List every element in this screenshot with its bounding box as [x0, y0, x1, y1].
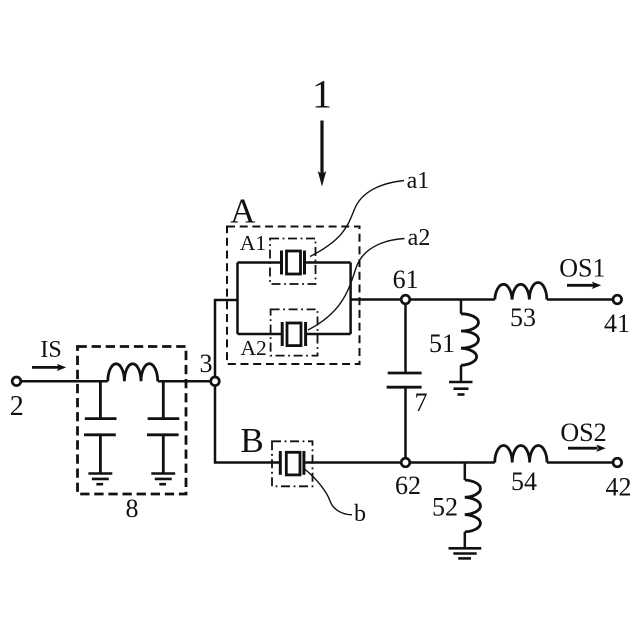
svg-text:61: 61 — [393, 265, 419, 294]
svg-text:41: 41 — [604, 309, 630, 338]
svg-text:1: 1 — [312, 72, 332, 117]
svg-text:A: A — [230, 192, 256, 231]
svg-text:54: 54 — [511, 467, 537, 496]
svg-text:53: 53 — [510, 303, 536, 332]
svg-text:A1: A1 — [240, 231, 266, 255]
svg-text:52: 52 — [432, 493, 458, 522]
svg-text:B: B — [240, 421, 263, 460]
svg-text:OS1: OS1 — [559, 254, 605, 283]
svg-text:3: 3 — [200, 349, 213, 378]
svg-text:8: 8 — [126, 494, 139, 523]
svg-text:A2: A2 — [240, 336, 266, 360]
svg-text:a1: a1 — [407, 168, 430, 194]
svg-text:2: 2 — [10, 391, 24, 422]
svg-text:42: 42 — [606, 473, 632, 502]
svg-text:OS2: OS2 — [560, 418, 606, 447]
svg-text:IS: IS — [40, 337, 61, 363]
svg-text:7: 7 — [415, 388, 428, 417]
svg-text:62: 62 — [395, 471, 421, 500]
svg-text:b: b — [354, 501, 366, 527]
svg-text:51: 51 — [429, 329, 455, 358]
svg-text:a2: a2 — [408, 225, 431, 251]
